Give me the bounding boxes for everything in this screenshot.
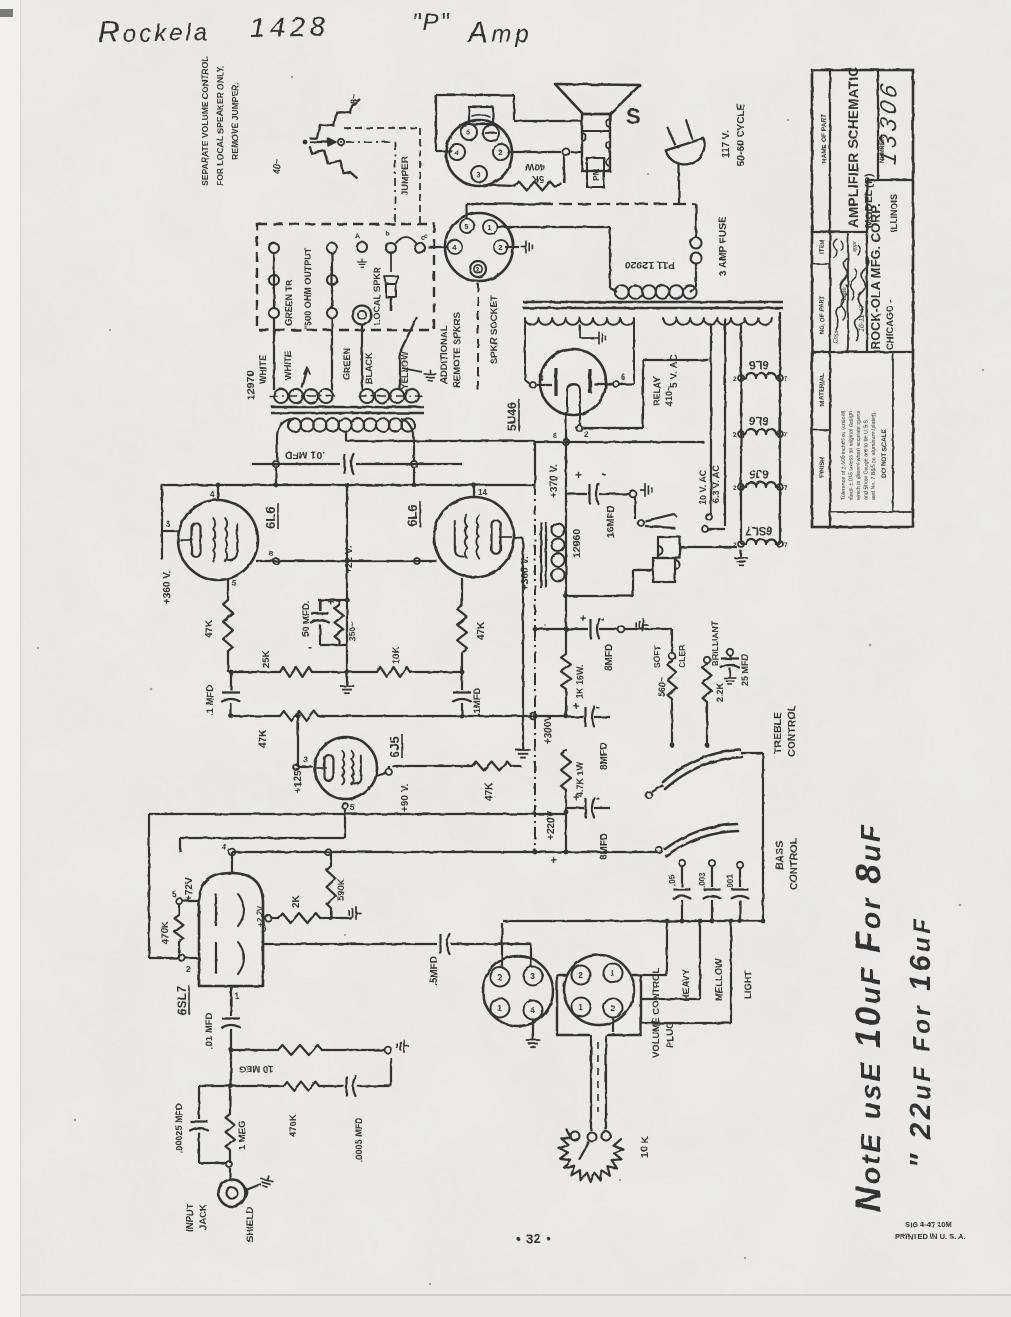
- svg-text:1: 1: [578, 1003, 583, 1012]
- svg-text:6SL7: 6SL7: [175, 986, 189, 1015]
- svg-text:.001: .001: [726, 874, 735, 890]
- svg-text:WHITE: WHITE: [258, 355, 268, 384]
- svg-text:appr: appr: [852, 240, 858, 252]
- svg-text:NAME OF PART: NAME OF PART: [821, 114, 828, 163]
- svg-text:CHICAGO -: CHICAGO -: [885, 299, 896, 350]
- svg-text:6L6: 6L6: [749, 414, 769, 426]
- svg-text:PRINTED IN U. S. A.: PRINTED IN U. S. A.: [895, 1232, 966, 1241]
- svg-text:REMOTE SPKRS: REMOTE SPKRS: [452, 312, 463, 388]
- svg-text:-: -: [601, 612, 605, 626]
- svg-text:Rockela: Rockela: [98, 14, 211, 49]
- svg-text:.01 MFD: .01 MFD: [204, 1012, 215, 1049]
- svg-text:12970: 12970: [245, 371, 257, 400]
- svg-text:.01 MFD: .01 MFD: [284, 449, 325, 461]
- svg-text:LIGHT: LIGHT: [743, 970, 754, 999]
- svg-text:dims. ±.015 unless an original: dims. ±.015 unless an original design: [849, 411, 855, 500]
- svg-text:Tolerance of ±.005 inches on (: Tolerance of ±.005 inches on (critical): [841, 411, 847, 500]
- svg-text:410~: 410~: [664, 386, 674, 406]
- svg-text:TREBLE: TREBLE: [772, 712, 784, 754]
- svg-text:2K: 2K: [291, 894, 302, 908]
- svg-text:PLUG: PLUG: [665, 1022, 676, 1048]
- svg-text:47K: 47K: [204, 619, 215, 638]
- svg-text:40W: 40W: [525, 161, 545, 172]
- svg-text:3 AMP FUSE: 3 AMP FUSE: [718, 216, 729, 276]
- svg-text:4: 4: [530, 1006, 535, 1015]
- svg-text:DO NOT SCALE: DO NOT SCALE: [881, 428, 888, 478]
- svg-text:3: 3: [530, 972, 535, 981]
- svg-text:.0005 MFD: .0005 MFD: [354, 1117, 364, 1162]
- svg-text:SIG 4-47 10M: SIG 4-47 10M: [905, 1220, 952, 1229]
- svg-text:+: +: [573, 792, 579, 804]
- svg-text:P11 12920: P11 12920: [625, 259, 675, 271]
- svg-text:.003: .003: [698, 872, 707, 888]
- svg-text:13306: 13306: [875, 78, 901, 167]
- svg-text:AMPLIFIER SCHEMATIC: AMPLIFIER SCHEMATIC: [846, 67, 861, 228]
- svg-text:5K: 5K: [532, 173, 544, 184]
- svg-text:47K: 47K: [258, 729, 269, 748]
- svg-text:5: 5: [464, 222, 468, 231]
- svg-text:2: 2: [497, 973, 502, 982]
- svg-text:.1 MFD: .1 MFD: [205, 685, 216, 716]
- svg-text:560~: 560~: [657, 677, 667, 697]
- svg-text:REMOVE JUMPER.: REMOVE JUMPER.: [230, 82, 240, 160]
- svg-text:1428: 1428: [250, 11, 331, 43]
- svg-text:5: 5: [466, 128, 470, 137]
- svg-text:+125V: +125V: [293, 763, 304, 793]
- svg-text:50 MFD.: 50 MFD.: [301, 601, 312, 637]
- svg-text:10K: 10K: [391, 646, 402, 664]
- svg-text:SPKR SOCKET: SPKR SOCKET: [489, 295, 500, 364]
- svg-text:1: 1: [610, 969, 615, 978]
- svg-text:and No. 7 B&S on aluminum,(pl: and No. 7 B&S on aluminum,(plated).: [871, 411, 877, 500]
- svg-text:+: +: [575, 468, 582, 482]
- svg-text:CONTROL: CONTROL: [788, 838, 800, 890]
- svg-text:7: 7: [784, 432, 788, 439]
- svg-text:5: 5: [232, 579, 237, 588]
- svg-text:A: A: [355, 233, 360, 240]
- svg-text:-: -: [602, 466, 606, 481]
- svg-text:3: 3: [166, 520, 171, 529]
- svg-text:"500 OHM OUTPUT: "500 OHM OUTPUT: [303, 247, 313, 330]
- svg-text:2: 2: [498, 148, 502, 157]
- svg-text:JUMPER: JUMPER: [400, 156, 411, 196]
- svg-text:3: 3: [476, 170, 480, 179]
- svg-text:ADDITIONAL: ADDITIONAL: [439, 325, 450, 384]
- svg-text:.5MFD: .5MFD: [429, 956, 440, 986]
- svg-text:Criss: Criss: [834, 330, 840, 344]
- svg-text:8~: 8~: [349, 94, 359, 104]
- svg-text:1: 1: [487, 223, 491, 232]
- svg-text:+: +: [328, 597, 334, 609]
- svg-text:YELLOW: YELLOW: [400, 351, 410, 390]
- svg-text:+360 V.: +360 V.: [520, 556, 531, 590]
- svg-text:16MFD: 16MFD: [606, 505, 617, 538]
- svg-text:6L6: 6L6: [749, 358, 769, 370]
- svg-text:6SL7: 6SL7: [745, 524, 773, 536]
- svg-text:6J5: 6J5: [387, 736, 402, 758]
- svg-text:6: 6: [621, 373, 626, 382]
- svg-text:+360 V.: +360 V.: [162, 570, 173, 604]
- svg-text:b: b: [386, 231, 390, 238]
- svg-text:16-11-47: 16-11-47: [859, 303, 866, 332]
- svg-text:2: 2: [584, 430, 589, 439]
- svg-text:″ 22uF For 16uF: ″ 22uF For 16uF: [905, 916, 937, 1168]
- svg-text:7: 7: [784, 376, 788, 383]
- svg-text:Date: Date: [842, 287, 848, 300]
- svg-text:+: +: [550, 853, 557, 867]
- svg-text:.05: .05: [668, 874, 677, 886]
- svg-text:and Show Gauge are to be: and Show Gauge are to be U.S.S.: [864, 418, 870, 500]
- svg-text:14: 14: [478, 488, 487, 497]
- svg-text:8MFD: 8MFD: [604, 644, 615, 671]
- svg-text:6L6: 6L6: [263, 507, 278, 529]
- svg-text:FINISH: FINISH: [819, 456, 826, 478]
- svg-text:470K: 470K: [288, 1114, 299, 1137]
- svg-text:NO. OF PART: NO. OF PART: [820, 295, 826, 334]
- svg-text:BRILLIANT: BRILLIANT: [710, 620, 720, 666]
- svg-text:2: 2: [733, 485, 737, 492]
- svg-text:8: 8: [269, 549, 273, 558]
- svg-text:which is altered when accurate: which is altered when accurate specs: [856, 410, 862, 501]
- svg-text:FOR LOCAL SPEAKER ONLY.: FOR LOCAL SPEAKER ONLY.: [215, 65, 225, 186]
- svg-text:SEPARATE VOLUME CONTROL: SEPARATE VOLUME CONTROL: [200, 56, 210, 186]
- svg-text:MATERIAL: MATERIAL: [819, 373, 826, 406]
- svg-text:10 K: 10 K: [639, 1135, 651, 1158]
- svg-text:8MFD: 8MFD: [599, 743, 610, 770]
- svg-text:+220V: +220V: [546, 810, 557, 840]
- svg-text:GREEN: GREEN: [342, 348, 352, 380]
- svg-text:6J5: 6J5: [749, 467, 769, 479]
- svg-text:VOLUME CONTROL: VOLUME CONTROL: [651, 968, 662, 1058]
- svg-text:7: 7: [784, 542, 788, 549]
- svg-text:INPUT: INPUT: [185, 1203, 196, 1232]
- svg-text:WHITE: WHITE: [283, 351, 293, 380]
- svg-text:JACK: JACK: [198, 1204, 209, 1230]
- svg-text:+90 V.: +90 V.: [400, 784, 411, 812]
- svg-text:BLACK: BLACK: [364, 352, 374, 384]
- svg-text:8: 8: [553, 431, 557, 440]
- svg-text:• 32 •: • 32 •: [516, 1232, 552, 1246]
- svg-text:NotE usE 10uF For 8uF: NotE usE 10uF For 8uF: [849, 823, 888, 1212]
- svg-text:470K: 470K: [160, 921, 171, 944]
- svg-text:590K: 590K: [336, 878, 347, 901]
- svg-text:+300V: +300V: [543, 714, 554, 744]
- svg-text:2: 2: [186, 965, 191, 974]
- svg-text:350~: 350~: [347, 622, 357, 641]
- svg-text:1K 16W.: 1K 16W.: [575, 664, 585, 699]
- svg-text:MELLOW: MELLOW: [714, 959, 725, 1001]
- svg-text:1: 1: [497, 1004, 502, 1013]
- svg-text:6L6: 6L6: [405, 505, 420, 527]
- svg-text:LOCAL SPKR: LOCAL SPKR: [372, 266, 382, 325]
- svg-text:-: -: [596, 700, 600, 714]
- svg-text:50-60 CYCLE: 50-60 CYCLE: [736, 103, 747, 166]
- svg-text:GREEN TR: GREEN TR: [284, 279, 294, 326]
- svg-text:2: 2: [733, 432, 737, 439]
- svg-text:CONTROL: CONTROL: [786, 705, 798, 757]
- svg-text:Amp: Amp: [466, 17, 533, 49]
- svg-text:1: 1: [235, 992, 240, 1001]
- svg-text:HEAVY: HEAVY: [681, 968, 692, 1001]
- svg-text:+: +: [580, 613, 586, 625]
- svg-text:c: c: [421, 235, 425, 242]
- svg-text:3: 3: [476, 267, 480, 274]
- svg-text:-: -: [308, 640, 312, 654]
- svg-text:ITEM: ITEM: [820, 240, 826, 254]
- svg-text:6.3 V. AC: 6.3 V. AC: [711, 465, 721, 503]
- svg-text:7: 7: [784, 485, 788, 492]
- svg-text:47K: 47K: [476, 621, 487, 640]
- svg-text:3: 3: [303, 755, 308, 764]
- svg-text:4: 4: [210, 490, 215, 499]
- svg-text:25 MFD: 25 MFD: [740, 653, 750, 686]
- svg-text:4: 4: [222, 843, 227, 852]
- svg-text:5: 5: [350, 803, 355, 812]
- svg-text:2.2K: 2.2K: [715, 682, 725, 702]
- svg-text:40~: 40~: [272, 159, 282, 174]
- svg-text:2: 2: [610, 1004, 615, 1013]
- svg-text:PM: PM: [591, 168, 601, 181]
- svg-text:.1MFD: .1MFD: [472, 687, 483, 716]
- svg-text:117 V.: 117 V.: [721, 130, 732, 158]
- svg-text:1 MEG: 1 MEG: [237, 1120, 248, 1150]
- svg-text:-: -: [596, 791, 600, 805]
- svg-text:+2.2V: +2.2V: [256, 905, 265, 927]
- svg-text:8MFD: 8MFD: [599, 833, 610, 860]
- svg-text:2: 2: [733, 376, 737, 383]
- svg-text:10 MEG: 10 MEG: [239, 1063, 274, 1074]
- svg-text:+: +: [573, 701, 579, 713]
- svg-text:10 V. AC: 10 V. AC: [698, 469, 708, 505]
- svg-text:+370 V.: +370 V.: [549, 464, 560, 498]
- svg-text:2: 2: [498, 243, 502, 252]
- svg-text:4: 4: [539, 374, 544, 383]
- svg-text:.00025 MFD: .00025 MFD: [174, 1103, 184, 1153]
- svg-text:5: 5: [172, 890, 177, 899]
- svg-text:+72V: +72V: [184, 877, 195, 901]
- svg-text:CLER: CLER: [677, 645, 687, 668]
- svg-text:S: S: [626, 104, 641, 129]
- svg-text:ROCK-OLA MFG. CORP.: ROCK-OLA MFG. CORP.: [869, 203, 883, 350]
- svg-text:"P": "P": [412, 9, 451, 36]
- svg-text:25K: 25K: [261, 650, 272, 668]
- svg-text:RELAY: RELAY: [652, 376, 662, 406]
- svg-text:2: 2: [578, 971, 583, 980]
- svg-text:ILLINOIS: ILLINOIS: [889, 194, 899, 232]
- svg-text:12960: 12960: [571, 529, 583, 558]
- svg-text:+22 V.: +22 V.: [344, 546, 355, 574]
- svg-text:5U46: 5U46: [505, 402, 519, 431]
- svg-text:SHIELD: SHIELD: [245, 1207, 256, 1242]
- svg-text:5 V. AC: 5 V. AC: [669, 354, 680, 388]
- svg-text:SOFT: SOFT: [652, 645, 662, 668]
- svg-text:BASS: BASS: [774, 841, 786, 870]
- svg-text:47K: 47K: [484, 782, 495, 801]
